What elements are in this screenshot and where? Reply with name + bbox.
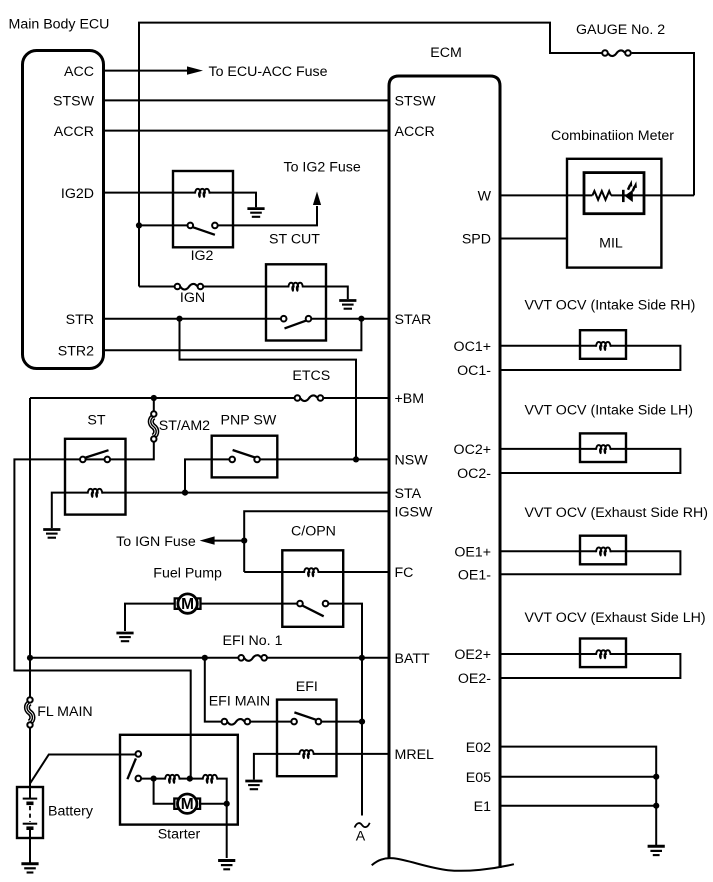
svg-text:ST CUT: ST CUT — [269, 231, 320, 247]
svg-text:VVT OCV (Intake Side LH): VVT OCV (Intake Side LH) — [525, 402, 693, 418]
battery plate short top — [26, 801, 33, 805]
wire IGN to ST CUT coil and ground — [203, 287, 348, 300]
contact C/OPN left — [297, 601, 303, 607]
ground starter — [218, 861, 235, 870]
coil VVT OCV exhaust LH — [596, 650, 611, 659]
node junction E1 — [653, 803, 659, 809]
node junction STAR — [358, 316, 364, 322]
svg-text:BATT: BATT — [395, 651, 431, 667]
ground E02 E05 E1 — [648, 846, 665, 855]
wire EFI coil ground lead — [254, 754, 389, 780]
ground ST coil — [43, 530, 60, 538]
wire OC1+ loop — [500, 346, 680, 370]
combination meter box — [567, 159, 661, 268]
switch lever EFI — [294, 712, 316, 719]
switch lever PNP — [233, 450, 255, 457]
coil EFI — [299, 750, 314, 759]
svg-text:ST: ST — [87, 412, 105, 428]
svg-text:IGSW: IGSW — [395, 505, 433, 521]
battery plate long top — [23, 798, 38, 800]
svg-text:ETCS: ETCS — [292, 368, 330, 384]
wire NSW — [260, 458, 389, 460]
node junction C/OPN column — [359, 655, 365, 661]
wire OE2+ loop — [500, 654, 680, 678]
coil C/OPN — [304, 568, 319, 577]
wire fuel pump ground lead — [125, 604, 175, 631]
arrow to IG2 fuse — [313, 192, 321, 206]
svg-text:Combinatiion Meter: Combinatiion Meter — [551, 128, 674, 144]
svg-text:STSW: STSW — [53, 94, 95, 110]
wire PNP SW input — [185, 459, 230, 492]
wire SPD — [500, 238, 567, 240]
svg-text:STR2: STR2 — [58, 343, 94, 359]
fuse EFI MAIN — [222, 719, 251, 725]
svg-text:OC1-: OC1- — [457, 363, 491, 379]
node junction starter motor — [224, 801, 230, 807]
node junction IG2 switch — [136, 222, 142, 228]
wire to IGN fuse arrow — [215, 540, 245, 542]
svg-text:FC: FC — [395, 565, 414, 581]
wire STSW — [104, 99, 389, 101]
contact ST left — [80, 457, 86, 463]
switch lever starter — [127, 758, 135, 779]
wire starter motor right lead — [200, 803, 227, 805]
svg-text:ECM: ECM — [430, 45, 462, 61]
wire +BM rail — [30, 397, 295, 399]
svg-text:OC2-: OC2- — [457, 466, 491, 482]
ECM connector box — [389, 76, 500, 868]
svg-text:E1: E1 — [474, 799, 491, 815]
svg-text:OE2-: OE2- — [458, 671, 491, 687]
node junction EFI output — [359, 719, 365, 725]
contact EFI right — [316, 719, 322, 725]
svg-text:STAR: STAR — [395, 312, 432, 328]
wire EFI No.1 fuse to BATT pin — [266, 657, 389, 659]
svg-text:C/OPN: C/OPN — [291, 524, 336, 540]
coil ST CUT — [288, 283, 303, 292]
wire E02 — [500, 747, 656, 845]
relay ST CUT box — [266, 264, 326, 340]
contact EFI left — [291, 719, 297, 725]
contact IG2 right — [212, 223, 218, 229]
Main Body ECU connector box — [23, 51, 104, 369]
switch lever C/OPN — [303, 606, 324, 617]
switch PNP SW box — [212, 436, 278, 478]
coil VVT OCV intake RH — [596, 342, 611, 351]
ground EFI coil — [245, 781, 262, 789]
svg-text:OE1+: OE1+ — [454, 544, 491, 560]
battery plate long bottom — [23, 823, 38, 825]
wire IG2 switch input — [139, 224, 188, 226]
svg-text:NSW: NSW — [395, 453, 429, 469]
contact ST CUT right — [306, 316, 312, 322]
contact starter bottom — [136, 776, 142, 782]
LED MIL ray 1 — [628, 185, 630, 190]
wire EFI MAIN branch — [205, 658, 222, 722]
switch lever ST CUT — [285, 321, 307, 329]
node junction E05 — [653, 774, 659, 780]
fuse EFI No. 1 — [238, 655, 267, 661]
fuse IGN — [175, 284, 204, 290]
fusible link FL MAIN — [27, 697, 33, 727]
svg-text:EFI: EFI — [296, 679, 318, 695]
svg-text:VVT OCV (Exhaust Side RH): VVT OCV (Exhaust Side RH) — [525, 505, 708, 521]
VVT OCV intake RH box — [580, 330, 626, 359]
wire E1 — [500, 805, 656, 807]
ECM bottom wave — [372, 858, 514, 871]
fuse GAUGE No. 2 — [602, 50, 631, 56]
battery box — [17, 787, 43, 838]
wire ST CUT switch to STAR — [311, 318, 389, 320]
contact C/OPN right — [323, 601, 329, 607]
ground IG2 coil — [247, 209, 264, 217]
svg-text:Fuel Pump: Fuel Pump — [153, 565, 222, 581]
switch lever ST — [85, 450, 108, 457]
MIL bulb box — [584, 173, 644, 214]
wire STR branch down to NSW — [180, 319, 357, 458]
battery dashed link — [29, 806, 31, 822]
wire BATT rail — [30, 657, 239, 659]
switch lever IG2 — [193, 227, 215, 235]
ground fuel pump — [116, 633, 133, 641]
svg-text:MREL: MREL — [395, 747, 435, 763]
battery plate short bottom — [26, 826, 33, 830]
svg-text:To ECU-ACC Fuse: To ECU-ACC Fuse — [209, 64, 328, 80]
wire fuse to meter — [632, 53, 694, 195]
wire EFI switch output — [321, 721, 362, 723]
wire starter feed diagonal — [30, 755, 136, 784]
node junction starter mid — [187, 776, 193, 782]
motor fuel pump — [175, 594, 201, 613]
svg-text:FL MAIN: FL MAIN — [37, 704, 92, 720]
wire starter motor left lead — [154, 779, 175, 804]
svg-text:SPD: SPD — [462, 232, 491, 248]
wire IGN rail — [139, 286, 175, 288]
wire ETCS fuse to +BM pin — [323, 397, 389, 399]
contact PNP left — [229, 457, 235, 463]
svg-text:OC1+: OC1+ — [454, 339, 491, 355]
fusible link ST/AM2 — [151, 411, 157, 441]
wire battery to ground — [29, 828, 31, 862]
wire ACCR — [104, 130, 389, 132]
wire STR2 — [104, 319, 361, 351]
svg-text:ACCR: ACCR — [395, 124, 435, 140]
coil ST — [88, 489, 103, 498]
svg-text:ACCR: ACCR — [54, 124, 94, 140]
wire ACC to fuse arrow — [104, 70, 187, 72]
contact IG2 left — [188, 223, 194, 229]
wire EFI MAIN fuse to EFI switch — [250, 721, 292, 723]
svg-text:E02: E02 — [466, 740, 491, 756]
arrow to IGN fuse — [200, 536, 215, 544]
svg-text:EFI MAIN: EFI MAIN — [209, 694, 270, 710]
motor starter — [174, 794, 200, 813]
resistor MIL — [592, 191, 611, 200]
contact ST right — [105, 457, 111, 463]
wire IG2D to coil and ground — [104, 193, 256, 208]
svg-text:STA: STA — [395, 486, 422, 502]
svg-text:OE1-: OE1- — [458, 567, 491, 583]
wire C/OPN output down to A — [328, 604, 362, 816]
svg-text:EFI No. 1: EFI No. 1 — [223, 633, 283, 649]
break symbol A — [355, 823, 370, 828]
wire fuel pump to C/OPN switch — [200, 603, 297, 605]
wire E05 — [500, 776, 656, 778]
svg-text:OE2+: OE2+ — [454, 647, 491, 663]
svg-text:Main Body ECU: Main Body ECU — [9, 17, 110, 33]
svg-text:IGN: IGN — [180, 290, 205, 306]
svg-text:ACC: ACC — [64, 64, 94, 80]
svg-text:W: W — [478, 189, 492, 205]
svg-text:A: A — [356, 829, 366, 845]
svg-text:ST/AM2: ST/AM2 — [159, 418, 210, 434]
LED MIL cathode bar — [622, 190, 625, 202]
LED MIL triangle — [625, 190, 633, 202]
wire IGSW — [244, 511, 389, 572]
relay C/OPN box — [282, 550, 343, 627]
coil IG2 — [195, 189, 210, 198]
wire W right segment — [611, 194, 694, 196]
svg-text:Starter: Starter — [158, 827, 201, 843]
wire FL MAIN upper — [29, 658, 31, 698]
starter box — [120, 735, 238, 825]
wire left battery column — [29, 398, 31, 658]
node junction To IGN Fuse — [241, 538, 247, 544]
VVT OCV exhaust LH box — [580, 639, 626, 668]
ground battery — [21, 864, 38, 873]
wire OC2+ loop — [500, 449, 680, 473]
svg-text:To IG2 Fuse: To IG2 Fuse — [284, 160, 361, 176]
svg-text:PNP SW: PNP SW — [221, 412, 277, 428]
svg-text:IG2D: IG2D — [61, 186, 94, 202]
coil VVT OCV intake LH — [596, 445, 611, 454]
wire W left segment — [500, 194, 592, 196]
node junction ST/AM2 tap — [151, 395, 157, 401]
svg-text:E05: E05 — [466, 770, 491, 786]
node junction BATT left — [27, 655, 33, 661]
LED MIL ray 2 — [633, 187, 635, 192]
contact starter top — [136, 751, 142, 757]
wire ST/AM2 to ST switch — [14, 442, 190, 779]
relay IG2 box — [173, 171, 233, 247]
wire starter ground lead — [226, 804, 228, 858]
coil VVT OCV exhaust RH — [596, 547, 611, 556]
wire FL MAIN to battery — [29, 727, 31, 799]
wire OE1+ loop — [500, 551, 680, 574]
wire top rail to GAUGE fuse — [139, 23, 603, 287]
wire STR to ST CUT switch — [104, 318, 281, 320]
wire starter coils — [141, 779, 227, 804]
svg-text:STSW: STSW — [395, 94, 437, 110]
contact PNP right — [254, 457, 260, 463]
svg-text:Battery: Battery — [48, 804, 94, 820]
node junction EFI MAIN tap — [202, 655, 208, 661]
node junction PNP feed — [182, 490, 188, 496]
wire STA rail with ST coil — [52, 493, 389, 528]
node junction NSW — [353, 456, 359, 462]
VVT OCV intake LH box — [580, 433, 626, 462]
wire FC with C/OPN coil — [244, 571, 389, 573]
coil starter pull — [203, 775, 218, 784]
VVT OCV exhaust RH box — [580, 536, 626, 565]
ground ST CUT coil — [339, 301, 356, 309]
arrow to ECU-ACC fuse — [187, 66, 203, 74]
contact ST CUT left — [281, 316, 287, 322]
svg-text:To IGN Fuse: To IGN Fuse — [116, 534, 196, 550]
node junction STR — [176, 316, 182, 322]
svg-text:OC2+: OC2+ — [454, 442, 491, 458]
fuse ETCS — [295, 395, 324, 401]
svg-text:STR: STR — [66, 312, 94, 328]
svg-text:VVT OCV (Exhaust Side LH): VVT OCV (Exhaust Side LH) — [525, 610, 706, 626]
relay ST box — [65, 439, 126, 515]
svg-text:VVT OCV (Intake Side RH): VVT OCV (Intake Side RH) — [525, 298, 696, 314]
relay EFI box — [277, 700, 337, 777]
svg-text:IG2: IG2 — [191, 248, 214, 264]
wire IG2 switch output — [218, 206, 318, 225]
coil starter hold — [165, 775, 180, 784]
wire ST/AM2 upper lead — [153, 398, 155, 412]
svg-text:MIL: MIL — [599, 236, 623, 252]
node junction starter left — [151, 776, 157, 782]
svg-text:GAUGE No. 2: GAUGE No. 2 — [576, 22, 665, 38]
svg-text:+BM: +BM — [395, 391, 425, 407]
